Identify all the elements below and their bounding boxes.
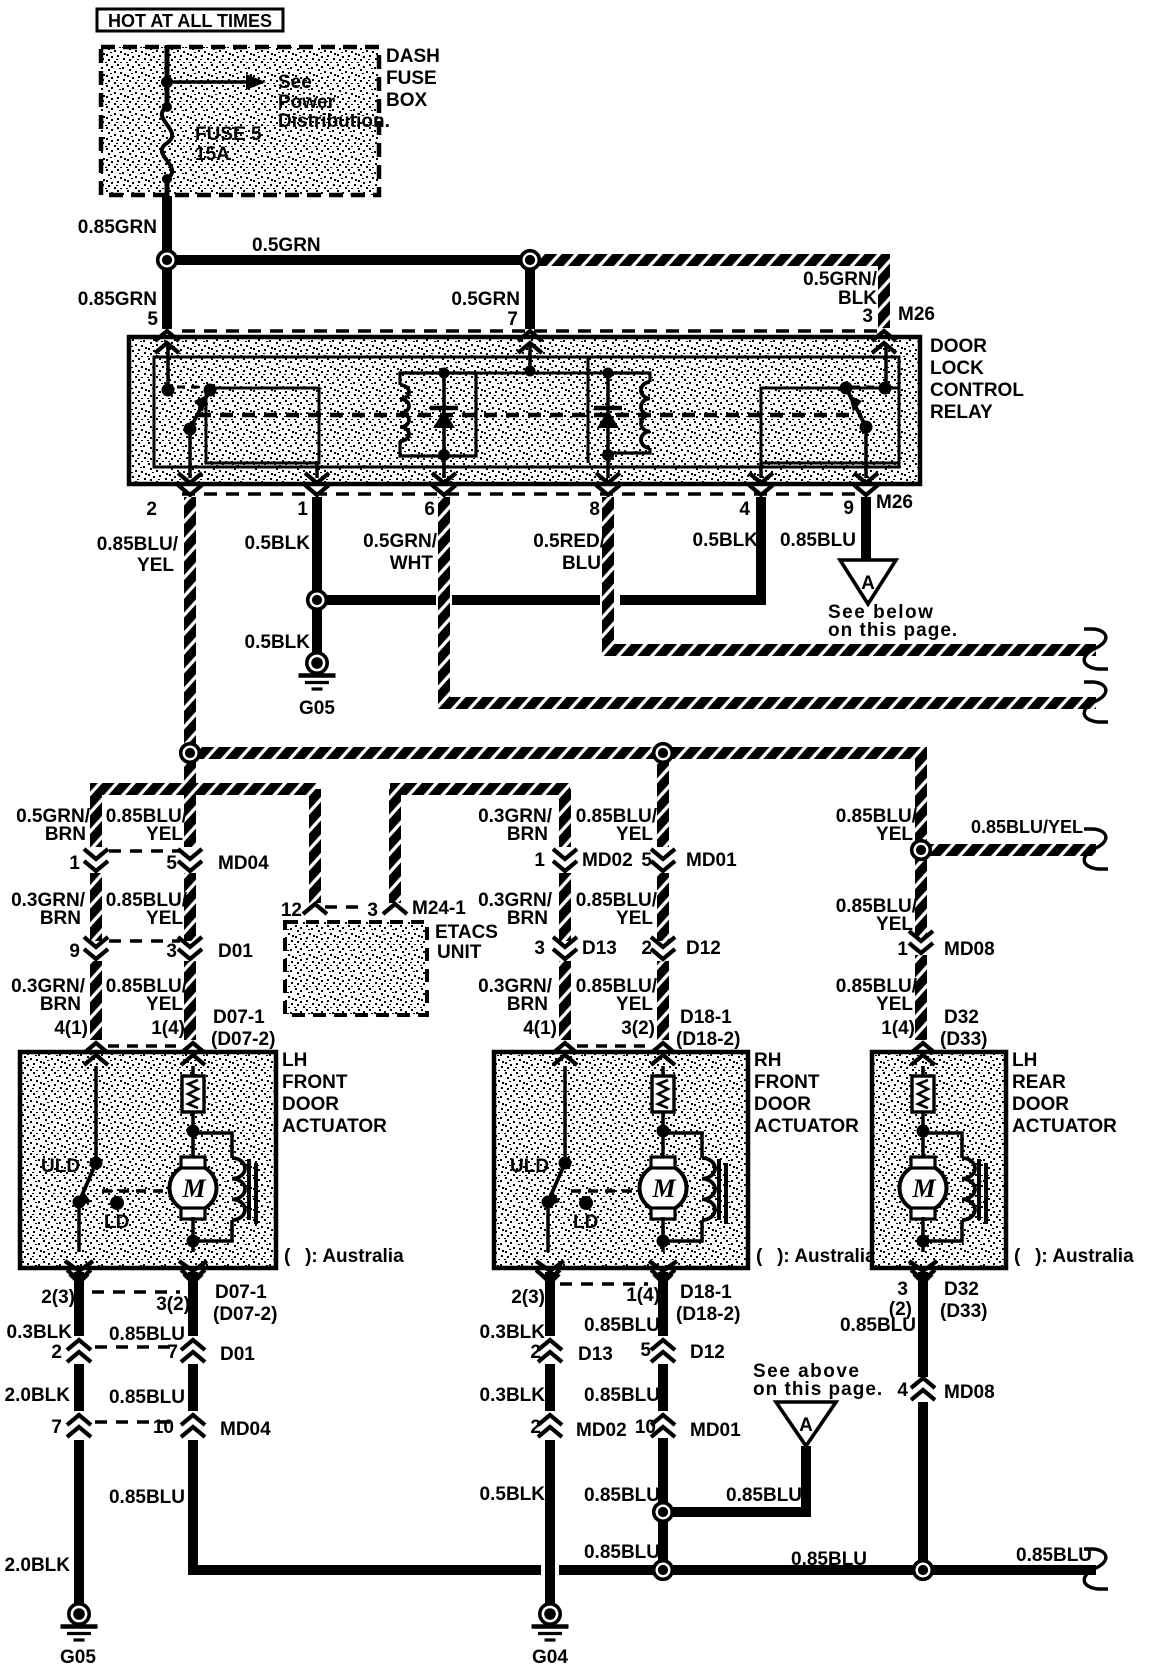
relay left coil L1 box <box>400 373 476 456</box>
coil branch <box>923 1133 962 1158</box>
svg-text:5: 5 <box>166 853 177 874</box>
wire relay pin6 stub <box>442 458 446 478</box>
svg-text:REAR: REAR <box>1012 1072 1066 1093</box>
wire hatched 0.85BLU/YEL branch right <box>929 844 1096 856</box>
svg-text:A: A <box>861 573 875 594</box>
svg-text:0.5BLK: 0.5BLK <box>245 632 311 653</box>
svg-text:2: 2 <box>641 938 652 959</box>
svg-text:( ): Australia: ( ): Australia <box>756 1246 876 1267</box>
relay U1 door lock control relay body <box>129 337 920 484</box>
relay right switch box <box>761 388 899 463</box>
svg-text:D13: D13 <box>582 938 617 959</box>
svg-text:YEL: YEL <box>137 555 174 576</box>
wire relay pin4 stub <box>759 463 763 478</box>
svg-text:UNIT: UNIT <box>437 942 482 963</box>
connector D01 / D13 / D12 row <box>109 939 180 943</box>
svg-text:6: 6 <box>424 499 435 520</box>
node motor bottom <box>657 1235 670 1248</box>
wire relay pin1 stub <box>315 463 319 478</box>
motor M <box>170 1165 217 1212</box>
wire 0.5RED/BLU pin8 hatched <box>608 497 1096 650</box>
door actuator body <box>494 1052 748 1268</box>
svg-text:G05: G05 <box>60 1647 96 1666</box>
svg-text:0.85BLU: 0.85BLU <box>584 1385 660 1406</box>
svg-text:0.5BLK: 0.5BLK <box>693 530 759 551</box>
svg-text:D07-1: D07-1 <box>215 1282 267 1303</box>
svg-text:7: 7 <box>167 1342 178 1363</box>
svg-text:(D18-2): (D18-2) <box>676 1029 740 1050</box>
triangle A reference upper <box>840 560 896 604</box>
svg-text:2(3): 2(3) <box>41 1287 75 1308</box>
node fuse-box junction <box>161 76 173 88</box>
svg-text:M26: M26 <box>876 492 913 513</box>
svg-text:D12: D12 <box>686 938 721 959</box>
svg-text:2: 2 <box>51 1342 62 1363</box>
svg-text:HOT AT ALL TIMES: HOT AT ALL TIMES <box>108 11 272 31</box>
svg-text:(D33): (D33) <box>940 1029 988 1050</box>
svg-text:DOOR: DOOR <box>754 1094 811 1115</box>
svg-text:0.85BLU: 0.85BLU <box>840 1315 916 1336</box>
svg-text:15A: 15A <box>195 144 230 165</box>
svg-text:0.3BLK: 0.3BLK <box>7 1322 73 1343</box>
svg-text:YEL: YEL <box>146 994 183 1015</box>
svg-text:ACTUATOR: ACTUATOR <box>1012 1116 1117 1137</box>
svg-text:ACTUATOR: ACTUATOR <box>754 1116 859 1137</box>
connector MD08 bottom row <box>911 1378 935 1388</box>
wire rear actuator pin down <box>918 1272 928 1377</box>
svg-text:D18-1: D18-1 <box>680 1282 732 1303</box>
svg-text:( ): Australia: ( ): Australia <box>1014 1246 1134 1267</box>
pin 3 connector <box>872 331 896 341</box>
svg-text:G05: G05 <box>299 698 335 719</box>
svg-text:LH: LH <box>1012 1050 1037 1071</box>
svg-text:4: 4 <box>897 1380 908 1401</box>
svg-text:YEL: YEL <box>876 914 913 935</box>
svg-text:2.0BLK: 2.0BLK <box>5 1555 71 1576</box>
wire hatched main run y753 <box>190 753 921 938</box>
svg-text:4(1): 4(1) <box>54 1018 88 1039</box>
svg-text:1(4): 1(4) <box>151 1018 185 1039</box>
svg-text:0.5GRN/: 0.5GRN/ <box>363 531 438 552</box>
svg-text:DOOR: DOOR <box>282 1094 339 1115</box>
svg-text:7: 7 <box>51 1417 62 1438</box>
svg-text:0.5BLK: 0.5BLK <box>480 1484 546 1505</box>
svg-text:0.85BLU: 0.85BLU <box>584 1485 660 1506</box>
connector MD04 bottom row <box>95 1420 178 1424</box>
wire fuse feed <box>165 45 170 107</box>
wire 0.5GRN horizontal <box>167 255 530 265</box>
motor M <box>900 1165 947 1212</box>
core lines <box>247 1159 251 1220</box>
svg-text:MD02: MD02 <box>576 1420 627 1441</box>
dash fuse box <box>101 47 379 195</box>
wire hatched to ETACS pin 12 <box>309 789 321 903</box>
svg-text:3: 3 <box>897 1279 908 1300</box>
svg-text:LOCK: LOCK <box>930 358 984 379</box>
wire continuation mark y650 <box>1084 629 1108 669</box>
wire hatched col RH-left <box>559 789 571 847</box>
wire to ground G05 <box>312 600 322 655</box>
svg-text:2: 2 <box>530 1342 541 1363</box>
actuator bottom connector chevrons <box>65 1261 93 1271</box>
svg-text:2: 2 <box>146 499 157 520</box>
svg-text:0.85BLU: 0.85BLU <box>780 530 856 551</box>
svg-text:2: 2 <box>530 1417 541 1438</box>
svg-text:0.5GRN: 0.5GRN <box>451 289 520 310</box>
svg-text:0.85BLU: 0.85BLU <box>584 1542 660 1563</box>
svg-text:LD: LD <box>104 1212 129 1233</box>
relay right coil L2 loop <box>587 358 590 463</box>
svg-text:DOOR: DOOR <box>1012 1094 1069 1115</box>
wire hatched to ETACS pin 3 <box>389 789 401 903</box>
svg-text:M: M <box>651 1174 676 1203</box>
svg-text:0.5GRN: 0.5GRN <box>252 235 321 256</box>
svg-text:G04: G04 <box>532 1647 568 1666</box>
svg-text:0.85BLU: 0.85BLU <box>1016 1545 1092 1566</box>
wire from triangle A to ring <box>668 1446 806 1512</box>
core lines <box>717 1159 721 1220</box>
connector chevrons into actuator <box>108 1044 181 1048</box>
connector MD02/MD01 bottom row <box>538 1415 562 1425</box>
relay right switch <box>884 345 888 388</box>
wire ground run y600 <box>313 595 436 605</box>
svg-text:BOX: BOX <box>386 90 428 111</box>
ground G05 bottom <box>69 1604 89 1624</box>
svg-text:MD04: MD04 <box>220 1419 271 1440</box>
svg-text:1: 1 <box>297 499 308 520</box>
wire to motor <box>191 1112 195 1158</box>
svg-text:0.85GRN: 0.85GRN <box>78 217 157 238</box>
relay diode D2 <box>606 373 610 455</box>
ETACS unit M24-1 <box>325 905 360 909</box>
node ring main/rear bottom <box>914 1561 933 1580</box>
svg-text:MD04: MD04 <box>218 853 269 874</box>
svg-text:FRONT: FRONT <box>282 1072 348 1093</box>
svg-text:M26: M26 <box>898 304 935 325</box>
svg-text:DASH: DASH <box>386 46 440 67</box>
ground G04 <box>540 1604 560 1624</box>
svg-text:BRN: BRN <box>40 994 81 1015</box>
wire hatched branch bar right <box>390 783 570 795</box>
svg-text:1: 1 <box>897 939 908 960</box>
wire relay pin8 stub <box>606 455 610 478</box>
svg-text:3: 3 <box>862 306 873 327</box>
svg-text:YEL: YEL <box>616 824 653 845</box>
svg-text:0.85BLU: 0.85BLU <box>726 1485 802 1506</box>
thermal protector <box>191 1066 195 1076</box>
connector D13/D12 bottom row <box>538 1340 562 1350</box>
svg-text:LD: LD <box>573 1212 598 1233</box>
svg-text:4(1): 4(1) <box>523 1018 557 1039</box>
relay mechanical dashed link <box>198 413 862 418</box>
svg-text:9: 9 <box>843 498 854 519</box>
node ring main/MD01 bottom <box>654 1561 673 1580</box>
svg-text:(D07-2): (D07-2) <box>211 1029 275 1050</box>
arrow See Power Distribution <box>167 80 246 84</box>
svg-text:2(3): 2(3) <box>511 1287 545 1308</box>
svg-text:MD01: MD01 <box>690 1420 741 1441</box>
wire RH actuator left pin to G04 <box>545 1272 555 1336</box>
connector D01 bottom row <box>95 1345 178 1349</box>
svg-text:3: 3 <box>166 941 177 962</box>
wire to motor <box>661 1112 665 1158</box>
svg-text:D12: D12 <box>690 1342 725 1363</box>
wire 0.5GRN/BLK hatched to relay pin 3 <box>534 260 884 328</box>
svg-text:BLU: BLU <box>562 553 601 574</box>
svg-text:0.85BLU: 0.85BLU <box>584 1315 660 1336</box>
svg-text:ULD: ULD <box>41 1156 80 1177</box>
svg-text:0.85BLU: 0.85BLU <box>791 1549 867 1570</box>
svg-text:BRN: BRN <box>507 824 548 845</box>
svg-text:CONTROL: CONTROL <box>930 380 1024 401</box>
thermal protector <box>661 1066 665 1076</box>
wire hatched rear col <box>915 955 927 1040</box>
svg-text:1: 1 <box>69 853 80 874</box>
svg-text:on this page.: on this page. <box>753 1379 883 1400</box>
svg-text:D18-1: D18-1 <box>680 1007 732 1028</box>
wire to relay pin 7 <box>525 260 535 329</box>
svg-text:0.5BLK: 0.5BLK <box>245 533 311 554</box>
svg-text:0.85BLU/: 0.85BLU/ <box>97 534 179 555</box>
svg-text:( ): Australia: ( ): Australia <box>284 1246 404 1267</box>
fuse F5 15A <box>162 102 172 112</box>
svg-text:D07-1: D07-1 <box>213 1007 265 1028</box>
door actuator body <box>872 1052 1006 1268</box>
motor M <box>640 1165 687 1212</box>
svg-text:YEL: YEL <box>876 824 913 845</box>
node ring main/pin2 <box>181 744 200 763</box>
wire pin7 junction <box>528 345 532 373</box>
node motor bottom <box>187 1235 200 1248</box>
svg-text:ETACS: ETACS <box>435 922 498 943</box>
connector chevrons into actuator <box>911 1043 935 1053</box>
node motor bottom <box>917 1235 930 1248</box>
wire 0.85BLU pin9 <box>861 497 871 562</box>
svg-text:0.85BLU: 0.85BLU <box>109 1387 185 1408</box>
wire main 0.85BLU bottom run <box>193 1565 541 1575</box>
svg-text:M: M <box>181 1174 206 1203</box>
svg-text:M24-1: M24-1 <box>412 898 466 919</box>
svg-text:Distribution.: Distribution. <box>278 111 390 132</box>
ground G05 upper <box>307 653 327 673</box>
svg-text:5: 5 <box>641 850 652 871</box>
node ring triangle branch <box>654 1503 673 1522</box>
svg-text:5: 5 <box>147 309 158 330</box>
svg-text:D32: D32 <box>944 1279 979 1300</box>
connector MD04 / MD02 / MD01 row <box>109 849 180 853</box>
core lines <box>977 1159 981 1220</box>
svg-text:YEL: YEL <box>146 908 183 929</box>
thermal protector <box>921 1066 925 1076</box>
ULD/LD switch <box>94 1066 98 1163</box>
svg-text:MD02: MD02 <box>582 850 633 871</box>
wire LH actuator right pin down <box>188 1272 198 1336</box>
svg-text:FUSE: FUSE <box>386 68 437 89</box>
svg-text:1: 1 <box>534 850 545 871</box>
wire 0.85BLU/YEL pin2 hatched <box>184 497 196 788</box>
wire continuation mark y703 <box>1084 682 1108 722</box>
svg-text:MD08: MD08 <box>944 1382 995 1403</box>
svg-text:BRN: BRN <box>507 994 548 1015</box>
wire 0.5BLK pin4 <box>756 497 766 605</box>
node ring main/MD01 col <box>654 744 673 763</box>
svg-text:RH: RH <box>754 1050 781 1071</box>
svg-text:0.5RED/: 0.5RED/ <box>533 531 606 552</box>
wire 0.5BLK pin1 <box>312 497 322 600</box>
svg-text:7: 7 <box>507 309 518 330</box>
svg-text:10: 10 <box>635 1417 656 1438</box>
svg-text:(D18-2): (D18-2) <box>676 1304 740 1325</box>
svg-text:M: M <box>911 1174 936 1203</box>
pin 7 connector <box>518 331 542 341</box>
svg-text:3: 3 <box>534 938 545 959</box>
coil branch <box>193 1133 232 1158</box>
svg-text:ULD: ULD <box>510 1156 549 1177</box>
svg-text:D01: D01 <box>218 941 253 962</box>
svg-text:(D07-2): (D07-2) <box>213 1304 277 1325</box>
node motor top <box>187 1125 200 1138</box>
svg-text:0.3BLK: 0.3BLK <box>480 1385 546 1406</box>
svg-text:3: 3 <box>367 900 378 921</box>
svg-text:BRN: BRN <box>40 908 81 929</box>
door actuator body <box>20 1052 276 1268</box>
svg-text:ACTUATOR: ACTUATOR <box>282 1116 387 1137</box>
svg-text:9: 9 <box>69 941 80 962</box>
svg-text:DOOR: DOOR <box>930 336 987 357</box>
wire hatched branch bar left <box>90 783 316 795</box>
wire LH actuator left pin to G05 <box>74 1272 84 1336</box>
svg-text:WHT: WHT <box>390 553 434 574</box>
svg-text:8: 8 <box>589 499 600 520</box>
node ring rear branch <box>912 841 931 860</box>
connector MD08 row1 <box>909 931 933 941</box>
svg-text:0.5GRN/: 0.5GRN/ <box>803 269 878 290</box>
svg-text:LH: LH <box>282 1050 307 1071</box>
svg-text:on this page.: on this page. <box>828 620 958 641</box>
svg-text:0.3BLK: 0.3BLK <box>480 1322 546 1343</box>
svg-text:1(4): 1(4) <box>626 1285 660 1306</box>
connector M26 top dashed line <box>182 329 877 333</box>
svg-text:YEL: YEL <box>146 824 183 845</box>
ULD/LD switch <box>563 1066 567 1163</box>
svg-text:10: 10 <box>153 1417 174 1438</box>
svg-text:RELAY: RELAY <box>930 402 993 423</box>
svg-text:0.85GRN: 0.85GRN <box>78 289 157 310</box>
svg-text:(D33): (D33) <box>940 1301 988 1322</box>
svg-text:A: A <box>799 1415 813 1436</box>
svg-text:1(4): 1(4) <box>881 1018 915 1039</box>
svg-text:MD01: MD01 <box>686 850 737 871</box>
coil branch <box>663 1133 702 1158</box>
relay left switch box <box>206 388 319 463</box>
svg-text:FRONT: FRONT <box>754 1072 820 1093</box>
connector chevrons into actuator <box>577 1044 651 1048</box>
svg-text:YEL: YEL <box>876 994 913 1015</box>
svg-text:0.85BLU/YEL: 0.85BLU/YEL <box>971 817 1083 837</box>
svg-text:5: 5 <box>640 1340 651 1361</box>
svg-text:D01: D01 <box>220 1344 255 1365</box>
pin 5 connector <box>155 331 179 341</box>
svg-text:2.0BLK: 2.0BLK <box>5 1385 71 1406</box>
svg-text:3(2): 3(2) <box>621 1018 655 1039</box>
node ring pin1 <box>308 591 327 610</box>
node motor top <box>657 1125 670 1138</box>
wire fuse to node <box>165 179 170 198</box>
wire RH actuator right pin down <box>658 1272 668 1336</box>
svg-text:0.85BLU: 0.85BLU <box>109 1487 185 1508</box>
svg-text:See: See <box>278 72 312 93</box>
relay diode D1 <box>442 373 446 456</box>
label HOT AT ALL TIMES <box>97 9 283 31</box>
svg-text:YEL: YEL <box>616 908 653 929</box>
svg-text:BRN: BRN <box>507 908 548 929</box>
wire hatched col RH-right <box>657 753 669 847</box>
svg-text:Power: Power <box>278 92 336 113</box>
wire 0.5GRN/WHT pin6 hatched <box>444 497 1096 703</box>
svg-text:D13: D13 <box>578 1344 613 1365</box>
node motor top <box>917 1125 930 1138</box>
svg-text:YEL: YEL <box>616 994 653 1015</box>
wire to relay pin 5 <box>162 260 172 329</box>
node A1 junction ring <box>158 251 177 270</box>
wire to motor <box>921 1112 925 1158</box>
svg-text:3(2): 3(2) <box>156 1294 190 1315</box>
node A2 junction ring <box>521 251 540 270</box>
connector M26 bottom dashed line <box>182 492 868 496</box>
svg-text:BRN: BRN <box>45 824 86 845</box>
svg-text:12: 12 <box>281 900 302 921</box>
svg-text:D32: D32 <box>944 1007 979 1028</box>
relay left switch <box>166 345 170 390</box>
svg-text:FUSE 5: FUSE 5 <box>195 124 262 145</box>
svg-text:4: 4 <box>739 499 750 520</box>
svg-text:MD08: MD08 <box>944 939 995 960</box>
